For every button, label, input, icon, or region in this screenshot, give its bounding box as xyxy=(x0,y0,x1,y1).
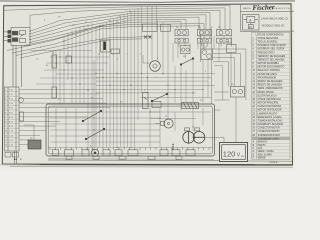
strip output wires xyxy=(19,90,110,145)
wire fan f4 xyxy=(213,62,229,87)
svg-text:REDE ELETR. LIGADA: REDE ELETR. LIGADA xyxy=(258,116,283,119)
wire bus L2 xyxy=(30,8,225,30)
wire mesh v x72 xyxy=(71,30,73,104)
wire thermostat down xyxy=(230,53,232,88)
wire bottom run b xyxy=(248,160,293,162)
wire center v x173 xyxy=(172,43,174,62)
spare terminal boxes xyxy=(5,153,19,158)
svg-text:TECLA LIGA/DESL.: TECLA LIGA/DESL. xyxy=(258,40,279,43)
wire mesh v x92 xyxy=(91,23,93,151)
wire motor9 lead xyxy=(143,55,150,63)
svg-text:TERMOST. DE LAVAGEM: TERMOST. DE LAVAGEM xyxy=(258,58,285,61)
micro switch 16 xyxy=(20,112,24,121)
wire rail y130 xyxy=(50,129,160,131)
wire rail y136 xyxy=(50,135,160,137)
wire center h y118.5 xyxy=(150,118,196,120)
wire fan f5 xyxy=(215,66,223,100)
wire strip row 8 xyxy=(19,121,60,123)
wire center v x214 xyxy=(213,36,215,49)
wire mesh h y63 xyxy=(46,62,108,64)
svg-text:PRESSOSTATO: PRESSOSTATO xyxy=(258,51,275,54)
vertical harness comb xyxy=(96,6,168,148)
wire block v x160 xyxy=(159,108,161,147)
wire bus L6 xyxy=(30,17,199,39)
svg-text:4: 4 xyxy=(58,99,59,101)
wire block v x66 xyxy=(65,108,67,147)
svg-text:RESIST. DE SECAGEM: RESIST. DE SECAGEM xyxy=(258,80,283,83)
svg-text:INTERRUPT. SECADOR: INTERRUPT. SECADOR xyxy=(258,123,284,126)
svg-text:BRANCO: BRANCO xyxy=(258,141,268,144)
terminal pin ticks xyxy=(50,148,209,150)
svg-text:SUPRESSOR RUIDO: SUPRESSOR RUIDO xyxy=(258,135,281,137)
strip drop dots xyxy=(14,159,22,160)
wire mesh v x88 xyxy=(87,24,89,151)
wire center v x219 xyxy=(218,43,220,62)
resistor R1 xyxy=(20,31,26,35)
svg-text:C 21: C 21 xyxy=(9,140,13,142)
svg-text:CZA: CZA xyxy=(258,147,263,150)
connector 27 xyxy=(181,46,191,54)
wire strip row 5 xyxy=(19,107,110,109)
wire center v x186 xyxy=(185,70,187,103)
wire bus L1 xyxy=(5,6,230,30)
wire mesh h y70 xyxy=(44,69,104,71)
wire strip row 12 xyxy=(19,139,34,141)
wire block v x76 xyxy=(75,108,77,147)
wire center h y112 xyxy=(150,111,211,113)
wire center v x175 xyxy=(174,66,176,103)
wire capacitor lead xyxy=(24,125,35,140)
wire comb x110 xyxy=(109,21,111,148)
wire bus L3 xyxy=(30,10,220,31)
svg-text:VERM. / CINZA: VERM. / CINZA xyxy=(258,150,275,153)
drive motor 9 xyxy=(150,61,161,72)
heater resistor 15 xyxy=(52,87,57,98)
svg-text:CONVENCAO CORES: CONVENCAO CORES xyxy=(258,137,279,140)
svg-text:CAPACITOR PARTIDA: CAPACITOR PARTIDA xyxy=(258,105,282,108)
svg-text:9: 9 xyxy=(5,126,6,128)
relay box 10b xyxy=(152,102,161,108)
wire strip row 1 xyxy=(19,89,96,91)
svg-text:AZUL CLARO: AZUL CLARO xyxy=(258,153,273,156)
scan top edge xyxy=(0,1,295,3)
wire comb x131 xyxy=(130,11,132,147)
wire comb x96 xyxy=(95,27,97,148)
svg-text:N. A 440 E C 130: N. A 440 E C 130 xyxy=(273,7,291,10)
wire mesh v x56 xyxy=(55,50,57,98)
wire block v x56 xyxy=(55,108,57,147)
svg-text:10: 10 xyxy=(5,131,7,133)
wire comb x127.5 xyxy=(127,13,129,147)
wire center v x185.5 xyxy=(185,54,187,59)
wire center h y73.4 xyxy=(96,72,215,74)
wire mesh v x53 xyxy=(52,50,54,87)
capacitor 20 xyxy=(28,140,41,149)
pin terminal c xyxy=(8,39,11,42)
svg-text:CHAVE CENTRIFUGA: CHAVE CENTRIFUGA xyxy=(258,98,282,101)
motor terminal a xyxy=(185,128,190,131)
right side wires xyxy=(205,26,246,142)
main motor 19 xyxy=(183,132,205,144)
svg-text:12: 12 xyxy=(98,54,100,56)
wire pin stub b xyxy=(4,35,8,37)
wire motor to 120 xyxy=(205,137,224,142)
svg-text:PROGRAMADOR: PROGRAMADOR xyxy=(258,76,277,79)
wire mesh v x60 xyxy=(59,50,61,104)
wire comb x163 xyxy=(162,22,164,75)
svg-text:7: 7 xyxy=(126,54,127,56)
svg-text:4: 4 xyxy=(5,103,6,105)
central cross wires xyxy=(96,36,231,119)
mid-left wiring mesh xyxy=(30,23,110,151)
pin tabs below block xyxy=(66,156,182,159)
cam switch S1 xyxy=(82,93,168,140)
wire bus L8 xyxy=(24,22,181,46)
wire strip row 11 xyxy=(19,134,40,136)
svg-text:13: 13 xyxy=(5,145,7,147)
svg-text:Fischer: Fischer xyxy=(252,3,275,12)
svg-text:B 18: B 18 xyxy=(9,126,13,128)
wire center v x198 xyxy=(197,43,199,49)
svg-text:6: 6 xyxy=(5,112,6,114)
wire comb x134.5 xyxy=(134,9,136,147)
wire comb x138 xyxy=(137,8,139,120)
component list table xyxy=(252,33,291,159)
wire strip row 13 xyxy=(19,144,28,146)
terminal strip X1 xyxy=(5,87,20,151)
wire block v x150 xyxy=(149,108,151,147)
wire lamp down xyxy=(235,97,237,143)
thermostat 7 xyxy=(66,56,72,63)
wire strip row 10 xyxy=(19,130,46,132)
wire strip row 9 xyxy=(19,125,56,127)
wire rail y142 xyxy=(50,141,160,143)
relay K2 xyxy=(12,38,18,42)
wire mesh h y84 xyxy=(36,83,96,85)
wire center v x208 xyxy=(207,60,209,98)
top supply bus wires xyxy=(4,6,230,58)
wire conn drop a xyxy=(200,35,202,62)
svg-text:MOTOR VENTILADOR: MOTOR VENTILADOR xyxy=(258,109,282,112)
svg-text:8: 8 xyxy=(5,122,6,124)
wire rail y118 xyxy=(50,117,160,119)
wire rail y124 xyxy=(50,123,160,125)
wire mesh h y74 xyxy=(56,73,96,75)
wire mesh v x84 xyxy=(83,25,85,104)
svg-text:MOTOR PRINCIPAL: MOTOR PRINCIPAL xyxy=(258,102,280,105)
module pin dots xyxy=(29,31,30,43)
wire code labels xyxy=(36,17,206,102)
wire bottom rail xyxy=(48,147,213,149)
wire module drop 3 xyxy=(12,45,14,87)
svg-text:ELETROVALVULA: ELETROVALVULA xyxy=(258,94,278,97)
junction cross a xyxy=(144,36,152,39)
svg-text:6: 6 xyxy=(180,74,181,76)
resistor R2 xyxy=(20,39,26,43)
micro switch row xyxy=(53,150,196,156)
thermostat 6 xyxy=(227,45,237,53)
svg-text:TERMOST. DE SECAGEM: TERMOST. DE SECAGEM xyxy=(258,55,286,58)
svg-text:3: 3 xyxy=(5,99,6,101)
connector block 25 xyxy=(143,24,171,32)
legend thermostat 24 xyxy=(243,15,260,31)
wire mesh h y50.5 xyxy=(30,50,92,52)
wire right h2 xyxy=(215,99,230,101)
svg-text:INTERRUP. PORTA FRONT: INTERRUP. PORTA FRONT xyxy=(258,44,287,47)
wire strip row 3 xyxy=(19,98,103,100)
svg-text:1: 1 xyxy=(5,89,6,91)
wire center h y85.3 xyxy=(96,84,215,86)
paper background xyxy=(0,0,295,171)
svg-text:P 11: P 11 xyxy=(9,94,13,96)
border frame xyxy=(2,4,292,165)
wire strip row 2 xyxy=(19,93,100,95)
wire trunk x211 xyxy=(211,26,213,104)
wire strip drop a xyxy=(14,151,16,164)
diode D1 xyxy=(20,35,24,37)
svg-text:2: 2 xyxy=(5,94,6,96)
svg-text:TOMADA INSTALACAO: TOMADA INSTALACAO xyxy=(258,119,283,122)
svg-text:CONECTOR MOTOR: CONECTOR MOTOR xyxy=(258,128,281,130)
wire mesh v x94 xyxy=(93,60,95,151)
wire comb x99.5 xyxy=(99,25,101,147)
filter block 11 xyxy=(101,40,120,54)
pin terminal a xyxy=(8,30,11,33)
svg-text:C 19: C 19 xyxy=(9,131,13,133)
wire bus riser b xyxy=(29,15,31,27)
svg-text:FILTRO DE LINHA: FILTRO DE LINHA xyxy=(258,73,278,76)
filter core xyxy=(103,42,106,51)
wire strip drop b xyxy=(15,151,17,164)
svg-text:LAMPADA PILOTO: LAMPADA PILOTO xyxy=(258,112,278,115)
wire comb x106.5 xyxy=(106,22,108,147)
fan terminal xyxy=(161,121,165,125)
connector 26 xyxy=(175,29,236,59)
svg-text:14: 14 xyxy=(112,54,114,56)
mains voltage box 120Vca xyxy=(220,143,248,162)
wire comb x113.5 xyxy=(113,19,115,147)
wire comb x117 xyxy=(116,18,118,148)
wire center v x178 xyxy=(177,43,179,58)
svg-text:MOTOR ESCOVAMENTO: MOTOR ESCOVAMENTO xyxy=(258,66,285,69)
svg-text:C 20: C 20 xyxy=(9,135,13,137)
svg-text:11: 11 xyxy=(5,135,7,137)
wire bus L5 xyxy=(30,15,206,37)
wire block v x203 xyxy=(202,108,204,125)
svg-text:TERM. ATERRAMENTO: TERM. ATERRAMENTO xyxy=(258,87,283,90)
wire rail y112 xyxy=(50,111,160,113)
wire bus L4 xyxy=(30,13,210,39)
wire center v x224 xyxy=(223,36,225,45)
wire center v x181 xyxy=(180,66,182,110)
svg-text:LISTA DE COMPONENTES: LISTA DE COMPONENTES xyxy=(256,34,284,37)
pressure switch 5 xyxy=(143,93,149,109)
svg-text:MICRO CHAVE: MICRO CHAVE xyxy=(258,91,275,94)
fan motor 21 xyxy=(164,119,173,128)
wire strip row 6 xyxy=(19,111,92,113)
svg-text:3: 3 xyxy=(140,54,141,56)
wire center v x193 xyxy=(192,59,194,103)
wire strip row 4 xyxy=(19,102,107,104)
wire center v x231 xyxy=(230,36,232,45)
programmer internal rails xyxy=(48,108,213,148)
svg-text:CHAVE SELETORA: CHAVE SELETORA xyxy=(258,37,279,40)
wire fan f2 xyxy=(213,53,241,86)
wire center h y81.1 xyxy=(96,80,208,82)
pin terminal b xyxy=(8,35,11,38)
svg-text:RESIST. DE LAVAGEM: RESIST. DE LAVAGEM xyxy=(258,84,282,87)
wire center v x203 xyxy=(202,60,204,103)
svg-text:CONECTOR RESIST.: CONECTOR RESIST. xyxy=(258,131,281,133)
drying resistor 13 xyxy=(182,103,199,109)
svg-text:P 15: P 15 xyxy=(9,112,13,114)
wire fan leads xyxy=(155,123,161,125)
wire fan f1 xyxy=(213,49,246,100)
wire comb x156.4 xyxy=(155,6,157,25)
wire frame stub xyxy=(4,9,5,11)
svg-text:RELE AUX. PARTIDA: RELE AUX. PARTIDA xyxy=(258,69,281,72)
relay K1 xyxy=(12,31,18,35)
motor terminal b xyxy=(195,128,200,131)
svg-text:2: 2 xyxy=(155,77,156,79)
svg-text:INTERRUP. SEG. PORTA: INTERRUP. SEG. PORTA xyxy=(258,48,285,51)
wire bus L11 xyxy=(16,37,151,56)
wire center h y97.5 xyxy=(140,97,211,99)
control module A1 xyxy=(4,28,30,151)
bottom scan shadow xyxy=(10,166,293,169)
wire mesh v x80 xyxy=(79,26,81,104)
junction dots xyxy=(172,144,173,150)
wire mesh v x68 xyxy=(67,33,69,80)
wire comb x120.5 xyxy=(120,16,122,147)
wire strip row 7 xyxy=(19,116,88,118)
wire mesh h y57 xyxy=(50,56,110,58)
wire bottom run xyxy=(48,159,220,162)
component number labels xyxy=(30,27,234,148)
svg-text:B 17: B 17 xyxy=(9,122,13,124)
pump motor 8 xyxy=(91,149,98,156)
wire pin stub c xyxy=(4,40,8,42)
wire conn drop b xyxy=(202,43,204,49)
svg-text:12: 12 xyxy=(5,140,7,142)
wire right corner xyxy=(215,109,221,111)
svg-text:7: 7 xyxy=(5,117,6,119)
svg-text:LAVA-SECA 9001 D: LAVA-SECA 9001 D xyxy=(261,16,289,20)
wire block v x175 xyxy=(174,112,176,131)
wire bottom run c xyxy=(48,158,214,161)
wire block to lamp xyxy=(215,91,229,93)
svg-text:9: 9 xyxy=(70,94,71,96)
title block frame xyxy=(241,5,295,32)
wire center h y92.9 xyxy=(96,92,196,94)
wire mesh v x76 xyxy=(75,28,77,104)
svg-text:B 16: B 16 xyxy=(9,117,13,119)
programmer block 12 xyxy=(46,104,215,156)
svg-text:P 12: P 12 xyxy=(9,99,13,101)
wire module drop 1 xyxy=(15,45,17,150)
wire center h y89.5 xyxy=(96,89,203,91)
wire bus L10 xyxy=(12,26,200,53)
wire comb x124 xyxy=(123,14,125,147)
svg-text:5: 5 xyxy=(5,108,6,110)
svg-text:MODELO 9001 DY: MODELO 9001 DY xyxy=(262,23,285,27)
wire module drop 2 xyxy=(21,45,23,87)
wire comb x157.5 xyxy=(157,20,159,61)
svg-text:P 10: P 10 xyxy=(9,89,13,91)
mains indicator 23 xyxy=(231,87,245,98)
wire fan f3 xyxy=(213,58,235,87)
svg-text:MARCA: MARCA xyxy=(243,7,251,10)
solenoid valve 17 xyxy=(201,49,213,60)
wire comb x168 xyxy=(167,24,169,120)
heater resistor 14 xyxy=(52,55,57,68)
wire comb x147.5 xyxy=(147,6,149,92)
svg-text:I-0094-A: I-0094-A xyxy=(269,161,278,164)
svg-text:8: 8 xyxy=(205,71,206,73)
wire center v x190 xyxy=(189,43,191,46)
wire comb x141.5 xyxy=(141,7,143,93)
wire mesh v x64 xyxy=(63,37,65,104)
svg-text:MOTOR DA BOMBA: MOTOR DA BOMBA xyxy=(258,62,280,65)
wire bus L9 xyxy=(7,24,204,51)
wire comb x103 xyxy=(102,24,104,148)
wire block v x193 xyxy=(192,108,194,131)
wire pin stub a xyxy=(4,31,8,33)
pilot lamp 22 xyxy=(19,98,24,103)
svg-text:120: 120 xyxy=(223,150,236,159)
wire mesh h y78 xyxy=(40,77,100,79)
wire center h y77.7 xyxy=(96,77,211,79)
wire comb x152 xyxy=(151,6,153,61)
wire bus L12 xyxy=(20,39,142,58)
wire bus L7 xyxy=(30,19,186,42)
centrifugal switch 18 xyxy=(180,58,194,66)
connector pin ticks xyxy=(179,43,231,47)
svg-text:P 14: P 14 xyxy=(9,108,13,110)
svg-text:C 22: C 22 xyxy=(9,145,13,147)
svg-text:P 13: P 13 xyxy=(9,103,13,105)
